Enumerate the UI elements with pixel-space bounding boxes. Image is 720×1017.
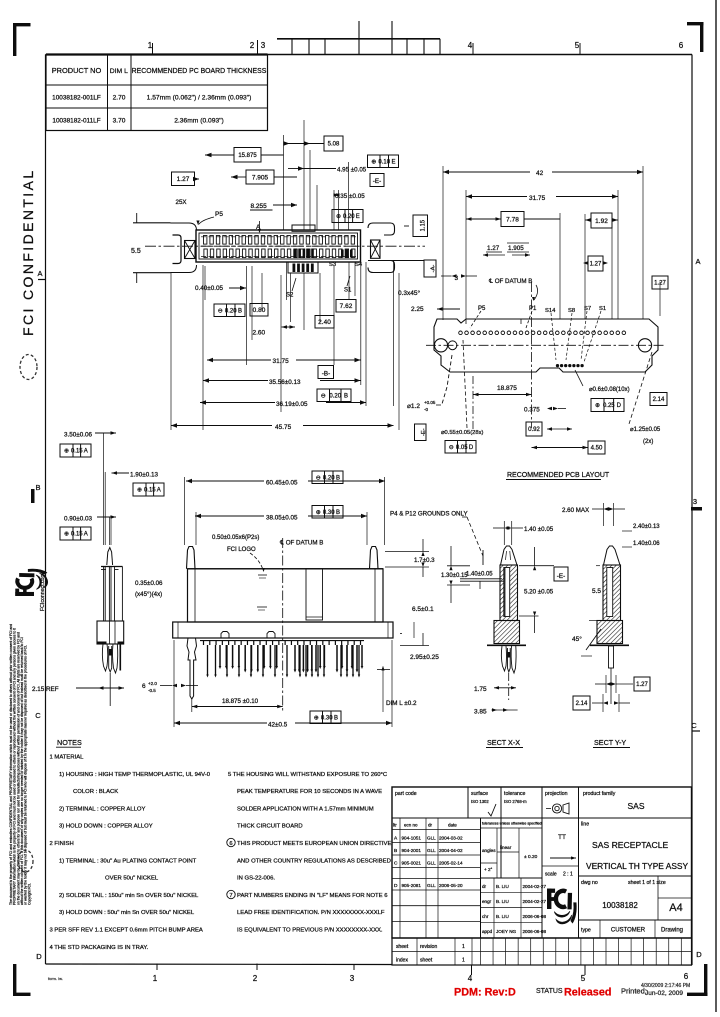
- svg-text:C: C: [35, 711, 41, 720]
- view2 left guide post: [187, 547, 196, 569]
- svg-text:ISO 1302: ISO 1302: [471, 799, 489, 804]
- corner mark bottom-left: [13, 964, 16, 996]
- svg-text:IN GS-22-006.: IN GS-22-006.: [237, 876, 275, 882]
- title block top row cells: [392, 817, 692, 819]
- svg-text:45°: 45°: [572, 635, 582, 643]
- svg-text:5 THE HOUSING WILL WITHSTAND: 5 THE HOUSING WILL WITHSTAND EXPOSURE TO…: [228, 772, 388, 778]
- svg-text:1.27: 1.27: [487, 245, 500, 252]
- view1 extension lines above: [283, 135, 285, 230]
- svg-text:2 FINISH: 2 FINISH: [50, 841, 74, 847]
- svg-text:2.60: 2.60: [253, 330, 266, 337]
- svg-text:2.60 MAX: 2.60 MAX: [562, 507, 589, 514]
- title block revision table: [392, 829, 481, 831]
- view1 left bowtie mount: [185, 241, 196, 259]
- svg-text:B. LIU: B. LIU: [496, 899, 509, 904]
- svg-text:2004-03-02: 2004-03-02: [439, 836, 463, 841]
- corner mark bottom-right: [704, 964, 707, 996]
- svg-text:part code: part code: [395, 791, 417, 797]
- view2 dim 60.45 top: [186, 480, 264, 482]
- svg-text:THIS PRODUCT MEETS EUROPEAN UN: THIS PRODUCT MEETS EUROPEAN UNION DIRECT…: [237, 841, 395, 847]
- svg-text:38.05±0.05: 38.05±0.05: [266, 515, 298, 522]
- svg-text:1.27: 1.27: [636, 682, 648, 688]
- svg-text:⊕: ⊕: [371, 159, 376, 165]
- svg-text:1.90±0.13: 1.90±0.13: [130, 472, 158, 479]
- svg-text:-B-: -B-: [322, 371, 330, 378]
- svg-text:31.75: 31.75: [529, 195, 546, 202]
- svg-text:P5: P5: [478, 306, 486, 312]
- svg-text:3: 3: [261, 41, 266, 50]
- view1 dim 0.80: [250, 304, 268, 317]
- svg-text:2.14: 2.14: [653, 397, 665, 403]
- svg-text:S4: S4: [355, 262, 363, 268]
- svg-text:2) SOLDER TAIL : 150u" min Sn: 2) SOLDER TAIL : 150u" min Sn OVER 50u" …: [59, 893, 199, 899]
- svg-text:0.35 ±0.05: 0.35 ±0.05: [335, 193, 365, 200]
- pcb dim 4.50 boxed: [588, 441, 605, 454]
- svg-text:℄ OF DATUM B: ℄ OF DATUM B: [488, 278, 532, 285]
- svg-text:STATUS: STATUS: [536, 988, 563, 995]
- svg-text:index: index: [396, 958, 408, 964]
- svg-text:0.15: 0.15: [71, 449, 83, 455]
- svg-text:4.50: 4.50: [591, 446, 603, 452]
- pcb mount hole left large: [434, 339, 447, 352]
- svg-text:0.375: 0.375: [524, 407, 540, 414]
- view2 logo mark: [257, 606, 267, 608]
- svg-text:FCIconnect.com: FCIconnect.com: [40, 573, 46, 611]
- FCI logo left sidebar: [15, 569, 47, 596]
- svg-text:0.20: 0.20: [323, 475, 335, 481]
- sectxx centerline: [508, 673, 510, 700]
- view1 extension lines below: [204, 266, 206, 300]
- svg-text:4.95 ±0.05: 4.95 ±0.05: [337, 167, 367, 174]
- svg-text:⊖: ⊖: [321, 393, 326, 399]
- view2 housing body: [188, 569, 384, 622]
- svg-text:904-1051: 904-1051: [402, 836, 422, 841]
- svg-text:1.27: 1.27: [590, 262, 602, 268]
- svg-text:NOTES: NOTES: [57, 738, 82, 747]
- svg-text:B: B: [394, 848, 397, 854]
- confidential legal paragraph vertical: [9, 624, 31, 905]
- view1 frame 0.20 E: [332, 210, 363, 223]
- svg-text:4: 4: [468, 41, 473, 50]
- svg-text:-E-: -E-: [557, 573, 565, 580]
- dim 35.56 chain: [203, 380, 268, 382]
- svg-text:sheet: sheet: [420, 958, 433, 964]
- svg-text:3.85: 3.85: [474, 709, 487, 716]
- svg-text:⊕: ⊕: [137, 488, 142, 494]
- svg-text:ISO 2768-m: ISO 2768-m: [504, 799, 527, 804]
- svg-text:Released: Released: [564, 987, 611, 999]
- pcb dim 2.14 boxed: [650, 393, 667, 406]
- svg-text:B: B: [336, 510, 340, 516]
- svg-text:⊖: ⊖: [449, 445, 454, 451]
- pcb dim 31.75: [466, 196, 527, 198]
- sectyy base block hatched: [597, 621, 623, 644]
- view1 center dark contacts: [294, 249, 297, 259]
- svg-text:7: 7: [229, 893, 232, 899]
- svg-text:6: 6: [142, 683, 146, 690]
- svg-text:8.255: 8.255: [251, 203, 268, 210]
- svg-text:PEAK TEMPERATURE FOR 10 SECOND: PEAK TEMPERATURE FOR 10 SECONDS IN A WAV…: [237, 789, 382, 795]
- svg-text:5.20 ±0.05: 5.20 ±0.05: [524, 589, 554, 596]
- svg-text:A: A: [84, 449, 88, 455]
- svg-text:line: line: [581, 822, 589, 828]
- svg-text:dr: dr: [428, 823, 433, 828]
- svg-text:36.19±0.05: 36.19±0.05: [276, 401, 308, 408]
- svg-text:revision: revision: [420, 944, 437, 950]
- view1 leader line to datum A box: [368, 260, 424, 262]
- svg-text:sheet: sheet: [396, 944, 409, 950]
- view2 hold-down clips on flange: [221, 632, 229, 639]
- svg-text:SECT Y-Y: SECT Y-Y: [594, 738, 626, 747]
- pcb dim 42: [443, 171, 530, 173]
- svg-text:0.10: 0.10: [378, 159, 390, 165]
- view2 base flange: [173, 622, 393, 638]
- svg-text:2.36mm (0.093"): 2.36mm (0.093"): [174, 118, 224, 125]
- sectyy dim 1.27 boxed: [634, 677, 650, 691]
- svg-text:0.80: 0.80: [253, 307, 266, 314]
- sectyy pin below straight: [609, 646, 614, 668]
- svg-text:0.3x45°: 0.3x45°: [398, 289, 421, 297]
- title block type row: [579, 919, 692, 921]
- svg-text:1 MATERIAL: 1 MATERIAL: [50, 755, 85, 761]
- svg-text:1.40±0.05: 1.40±0.05: [466, 572, 493, 578]
- svg-text:B. LIU: B. LIU: [496, 884, 509, 889]
- sectxx pcb surface line: [487, 644, 526, 646]
- view2 right post dim 1.7: [385, 551, 429, 553]
- svg-text:A: A: [157, 488, 161, 494]
- title block dwg no row: [579, 875, 692, 877]
- sectxx prongs below: [501, 646, 506, 671]
- svg-text:0.20: 0.20: [225, 308, 237, 314]
- view1 frame 0.20 B below: [214, 304, 245, 317]
- dim 31.75 chain: [207, 359, 271, 361]
- svg-text:PART NUMBERS ENDING IN "LF" ME: PART NUMBERS ENDING IN "LF" MEANS FOR NO…: [237, 893, 388, 899]
- view2 dim 38.05: [195, 515, 264, 517]
- svg-text:35.56±0.13: 35.56±0.13: [269, 379, 301, 386]
- svg-text:DIM L ±0.2: DIM L ±0.2: [386, 700, 417, 707]
- svg-text:tolerances unless otherwise sp: tolerances unless otherwise specified: [482, 822, 542, 826]
- svg-text:1: 1: [462, 944, 465, 950]
- svg-text:⌀1.25±0.05: ⌀1.25±0.05: [630, 427, 661, 433]
- svg-text:+ 2°: + 2°: [484, 867, 493, 872]
- view1 right wing outline: [384, 223, 395, 273]
- FCI logo title block: [547, 889, 576, 924]
- svg-text:0.30: 0.30: [323, 510, 335, 516]
- svg-text:905-0021: 905-0021: [402, 861, 422, 866]
- view1 dim 5.08: [324, 136, 343, 151]
- note 6 circled: [227, 838, 235, 846]
- hold-down extension lines up: [103, 433, 105, 545]
- view1 dim 7.62: [336, 300, 356, 313]
- svg-text:Drawing: Drawing: [661, 928, 683, 934]
- svg-text:E: E: [356, 214, 360, 220]
- svg-text:JOEY NG: JOEY NG: [496, 929, 517, 934]
- svg-text:AND OTHER COUNTRY REGULATIONS: AND OTHER COUNTRY REGULATIONS AS DESCRIB…: [237, 858, 391, 864]
- svg-text:0.20: 0.20: [343, 214, 355, 220]
- projection symbol first angle: [555, 806, 559, 810]
- view1 left bracket: [173, 235, 182, 264]
- svg-text:D: D: [36, 952, 42, 961]
- svg-text:-0.5: -0.5: [148, 688, 156, 693]
- dim 45.75 chain: [171, 425, 272, 427]
- pcb signal dot cluster: [556, 364, 559, 367]
- pcb frame 0.25 D: [591, 399, 624, 412]
- svg-text:6: 6: [684, 972, 689, 981]
- svg-text:⊕: ⊕: [314, 715, 319, 721]
- svg-text:31.75: 31.75: [273, 358, 290, 365]
- svg-text:2004-02-27: 2004-02-27: [523, 884, 547, 889]
- svg-text:⌀0.55±0.05(28x): ⌀0.55±0.05(28x): [441, 430, 484, 436]
- svg-text:GLL: GLL: [427, 848, 436, 853]
- view2 right guide post: [370, 547, 379, 569]
- svg-text:GLL: GLL: [427, 883, 436, 888]
- svg-text:(x45°)(4x): (x45°)(4x): [135, 591, 162, 598]
- svg-text:18.875 ±0.10: 18.875 ±0.10: [222, 698, 259, 705]
- pcb board inner step lines: [465, 319, 467, 324]
- svg-text:S8: S8: [568, 308, 575, 314]
- sectyy pcb surface line: [590, 644, 629, 646]
- view1 center top tab: [292, 225, 315, 231]
- view1 dim 7.905: [246, 170, 274, 184]
- svg-text:1.30±0.15: 1.30±0.15: [441, 573, 468, 579]
- svg-text:chr: chr: [482, 914, 489, 919]
- svg-text:TT: TT: [558, 834, 566, 841]
- svg-text:S1: S1: [344, 288, 352, 294]
- svg-text:S1: S1: [599, 306, 606, 312]
- svg-text:A: A: [695, 257, 700, 266]
- svg-text:Copyright FCI.: Copyright FCI.: [27, 883, 31, 905]
- svg-text:D: D: [696, 950, 702, 959]
- sectxx pin tip: [501, 546, 518, 565]
- svg-text:3 PER SFF REV 1.1 EXCEPT 0.6mm: 3 PER SFF REV 1.1 EXCEPT 0.6mm PITCH BUM…: [50, 928, 203, 934]
- svg-text:1.75: 1.75: [474, 686, 487, 693]
- svg-text:D: D: [394, 883, 398, 889]
- svg-text:ltr: ltr: [393, 823, 397, 828]
- svg-text:C: C: [394, 861, 398, 867]
- svg-text:2 : 1: 2 : 1: [563, 872, 573, 878]
- svg-text:1.15: 1.15: [420, 219, 426, 231]
- dim 36.19 chain: [200, 402, 275, 404]
- svg-text:1.92: 1.92: [595, 218, 608, 225]
- svg-text:0.50±0.05x6(P2s): 0.50±0.05x6(P2s): [212, 535, 259, 541]
- svg-text:0.40±0.05: 0.40±0.05: [195, 285, 223, 292]
- svg-text:date: date: [448, 823, 457, 828]
- svg-text:-A-: -A-: [430, 265, 436, 273]
- svg-text:6.5±0.1: 6.5±0.1: [412, 606, 434, 613]
- view1 dim 15.875: [234, 148, 261, 163]
- svg-text:C: C: [691, 721, 697, 730]
- pcb centerline datum B vertical: [531, 282, 533, 428]
- svg-text:2.95±0.25: 2.95±0.25: [410, 654, 439, 661]
- svg-text:engr: engr: [482, 899, 492, 904]
- svg-text:7.62: 7.62: [340, 303, 353, 310]
- view2 right dim 1.30: [447, 565, 470, 567]
- svg-text:⊕: ⊕: [595, 403, 600, 409]
- pcb extension verticals: [442, 166, 444, 320]
- view2 centerline: [282, 538, 284, 712]
- svg-text:2006-06-08: 2006-06-08: [523, 929, 547, 934]
- svg-text:7.78: 7.78: [506, 216, 519, 223]
- svg-text:surface: surface: [471, 791, 488, 797]
- svg-text:1.27: 1.27: [177, 176, 190, 183]
- svg-text:GLL: GLL: [427, 836, 436, 841]
- svg-text:S2: S2: [286, 293, 294, 299]
- svg-text:S14: S14: [545, 308, 556, 314]
- sheet revision strip: [392, 938, 692, 965]
- svg-text:4/30/2009 2:17:46 PM: 4/30/2009 2:17:46 PM: [641, 983, 690, 989]
- pcb centerline horizontal: [426, 344, 666, 346]
- svg-text:5.08: 5.08: [328, 142, 340, 148]
- svg-text:2004-04-02: 2004-04-02: [439, 848, 463, 853]
- view1 dim 2.40: [315, 316, 334, 329]
- svg-text:2.15 REF: 2.15 REF: [32, 686, 59, 693]
- svg-text:± 0.20: ± 0.20: [524, 854, 538, 860]
- svg-text:5: 5: [581, 974, 586, 983]
- svg-text:42: 42: [536, 170, 544, 177]
- svg-text:FCI CONFIDENTIAL: FCI CONFIDENTIAL: [20, 168, 36, 336]
- svg-text:2) TERMINAL : COPPER ALLOY: 2) TERMINAL : COPPER ALLOY: [59, 806, 145, 812]
- svg-text:3.70: 3.70: [113, 118, 126, 125]
- svg-text:1.905: 1.905: [508, 245, 524, 252]
- svg-text:GLL: GLL: [427, 861, 436, 866]
- folding scale comb top: [277, 38, 440, 40]
- datum B flag chain: [318, 366, 334, 379]
- sectxx datum E flag: [554, 567, 568, 581]
- view1 housing body outer: [196, 230, 361, 262]
- svg-text:dr: dr: [482, 884, 487, 889]
- svg-text:PDM: Rev:D: PDM: Rev:D: [454, 987, 516, 999]
- svg-text:B: B: [334, 715, 338, 721]
- view1 datum A box right: [424, 260, 436, 277]
- svg-text:-0: -0: [424, 407, 428, 412]
- svg-text:18.875: 18.875: [497, 385, 517, 392]
- pcb board outline: [434, 319, 658, 372]
- sectyy pin tip: [604, 546, 621, 565]
- punch hole mark upper: [20, 355, 37, 380]
- view1 dim 1.27 25X: [172, 172, 195, 186]
- svg-text:RECOMMENDED PC BOARD THICKNESS: RECOMMENDED PC BOARD THICKNESS: [132, 68, 267, 75]
- view1 right dark contacts: [341, 250, 344, 258]
- svg-text:IS EQUIVALENT TO PREVIOUS P/N: IS EQUIVALENT TO PREVIOUS P/N XXXXXXXX-X…: [237, 928, 383, 934]
- sectxx base block hatched: [494, 621, 520, 644]
- pcb dim 1.27 boxed mid: [588, 256, 603, 271]
- svg-text:0.92: 0.92: [528, 427, 540, 433]
- svg-text:THICK CIRCUIT BOARD: THICK CIRCUIT BOARD: [237, 824, 303, 830]
- svg-text:E: E: [391, 159, 395, 165]
- svg-text:Jun-02, 2009: Jun-02, 2009: [645, 990, 683, 997]
- svg-text:type: type: [581, 928, 591, 934]
- pcb datum E flag rotated: [415, 424, 427, 441]
- svg-text:3.50±0.06: 3.50±0.06: [64, 432, 92, 439]
- svg-text:⊖: ⊖: [218, 308, 223, 314]
- svg-text:B: B: [344, 393, 348, 399]
- view1 housing body inner: [199, 233, 358, 259]
- svg-text:0.35±0.06: 0.35±0.06: [135, 580, 163, 587]
- svg-text:3) HOLD DOWN : COPPER ALLOY: 3) HOLD DOWN : COPPER ALLOY: [59, 824, 153, 830]
- svg-text:D: D: [617, 403, 622, 409]
- svg-text:B: B: [336, 475, 340, 481]
- svg-text:CUSTOMER: CUSTOMER: [611, 928, 646, 934]
- svg-text:P4 & P12 GROUNDS ONLY: P4 & P12 GROUNDS ONLY: [390, 511, 468, 518]
- view2 dim 42: [174, 722, 267, 724]
- pcb mount hole left small: [448, 341, 457, 350]
- product table: [46, 53, 268, 55]
- svg-text:⊕: ⊕: [64, 449, 69, 455]
- svg-text:10038182-011LF: 10038182-011LF: [52, 118, 100, 125]
- svg-text:B: B: [238, 308, 242, 314]
- svg-text:B. LIU: B. LIU: [496, 914, 509, 919]
- view2 solder tails: [203, 641, 205, 645]
- svg-text:or wanted by the holder it may: or wanted by the holder it may not be di…: [24, 645, 28, 905]
- svg-text:S3: S3: [329, 262, 336, 268]
- svg-text:scale: scale: [545, 872, 557, 878]
- svg-text:45.75: 45.75: [275, 424, 292, 431]
- title block background: [392, 787, 692, 965]
- svg-text:905-2081: 905-2081: [402, 883, 422, 888]
- svg-text:2004-02-27: 2004-02-27: [523, 899, 547, 904]
- view1 left wing outline: [171, 223, 197, 273]
- svg-text:5.5: 5.5: [131, 248, 141, 255]
- svg-text:2: 2: [253, 974, 258, 983]
- FCI CONFIDENTIAL vertical text: [20, 168, 36, 336]
- view1 datum E flag: [370, 174, 384, 187]
- svg-text:2.40±0.13: 2.40±0.13: [633, 524, 660, 530]
- view1 centerline horizontal: [145, 245, 425, 247]
- svg-text:2.70: 2.70: [113, 95, 126, 102]
- view1 center bottom protrusion: [288, 262, 318, 273]
- svg-text:A4: A4: [669, 902, 682, 914]
- svg-text:0.90±0.03: 0.90±0.03: [64, 516, 92, 523]
- svg-text:0.05: 0.05: [456, 445, 468, 451]
- svg-text:10038182-001LF: 10038182-001LF: [52, 95, 101, 102]
- svg-text:60.45±0.05: 60.45±0.05: [266, 480, 298, 487]
- sectyy dim 2.14 boxed: [573, 696, 590, 710]
- svg-text:2006-06-08: 2006-06-08: [523, 914, 547, 919]
- pcb hole row: [459, 331, 463, 335]
- svg-text:(2x): (2x): [643, 439, 653, 445]
- scan edge line right: [715, 0, 717, 1012]
- view2 housing top edge: [188, 568, 384, 570]
- svg-text:2: 2: [250, 41, 255, 50]
- view2 long pins: [207, 645, 209, 675]
- svg-text:2006-05-20: 2006-05-20: [439, 883, 463, 888]
- svg-text:OVER 50u" NICKEL: OVER 50u" NICKEL: [105, 876, 159, 882]
- svg-text:4 THE STD PACKAGING IS IN TRAY: 4 THE STD PACKAGING IS IN TRAY.: [50, 945, 149, 951]
- sectxx body hatched: [500, 565, 518, 621]
- svg-text:PRODUCT NO: PRODUCT NO: [52, 66, 102, 75]
- pcb dim 7.78: [501, 212, 524, 227]
- corner mark top-left: [13, 23, 16, 56]
- view1 frame 0.10 E top right: [368, 155, 399, 168]
- svg-text:-E-: -E-: [373, 178, 381, 185]
- svg-text:COLOR : BLACK: COLOR : BLACK: [73, 789, 118, 795]
- svg-text:7.905: 7.905: [252, 174, 269, 181]
- svg-text:VERTICAL TH TYPE ASSY: VERTICAL TH TYPE ASSY: [586, 861, 689, 871]
- view1 dim 1.15 box: [413, 215, 428, 237]
- svg-text:4: 4: [468, 974, 473, 983]
- hold-down part prongs: [102, 644, 107, 671]
- svg-text:tolerance: tolerance: [504, 791, 525, 797]
- pcb dim 0.92 boxed: [526, 422, 542, 436]
- svg-text:P1: P1: [529, 306, 537, 312]
- svg-text:25X: 25X: [176, 199, 187, 206]
- svg-text:DIM L: DIM L: [110, 68, 128, 75]
- view2 center block: [306, 569, 323, 620]
- svg-text:dwg no: dwg no: [581, 880, 598, 886]
- svg-text:1.40±0.06: 1.40±0.06: [633, 541, 660, 547]
- svg-text:3: 3: [350, 974, 355, 983]
- pcb dim 1.27 boxed right: [652, 276, 668, 289]
